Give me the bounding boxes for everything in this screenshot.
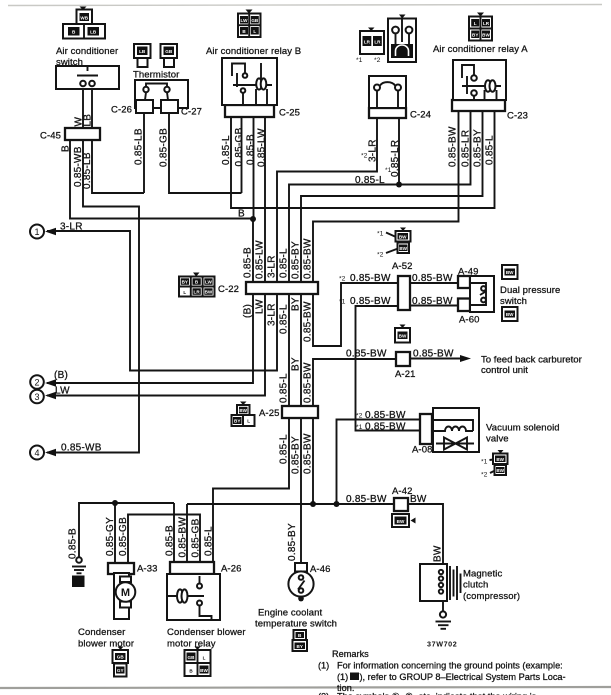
svg-text:L: L [474,21,477,26]
svg-text:C-45: C-45 [40,131,61,142]
svg-text:LW: LW [55,386,70,397]
svg-text:0.85-LW: 0.85-LW [257,128,268,167]
junction node B [250,216,256,222]
svg-text:LB: LB [83,114,94,127]
svg-text:LR: LR [374,40,381,45]
svg-text:0.85-L: 0.85-L [279,373,290,403]
svg-text:0.85-LR: 0.85-LR [461,130,472,167]
wire: 0.85-GB bus A-33 to A-26 [128,515,200,564]
connector A-08 [420,414,432,444]
arrow circle 2 [30,375,56,389]
icon: A-42 connector pin view with arrow [392,514,416,527]
svg-text:A-49: A-49 [458,267,478,278]
ground at condenser blower motor [72,557,86,587]
junction dot 0.85-GY at ground bus [112,500,118,506]
engine coolant temperature switch A-46 [288,563,313,601]
svg-text:BY: BY [234,419,240,424]
wire: 0.85-L from A-25 down to condenser relay A-26 [213,418,289,562]
svg-text:0.85-BW: 0.85-BW [413,349,454,360]
arrow circle 4 [30,446,56,460]
svg-text:0.85-BW: 0.85-BW [350,296,391,307]
svg-text:BW: BW [399,334,407,339]
svg-text:BW: BW [496,468,504,473]
svg-text:A-08: A-08 [412,445,432,456]
svg-text:0.85-BW: 0.85-BW [412,273,453,284]
remarks block [318,649,566,695]
svg-text:0.85-BW: 0.85-BW [346,494,387,505]
thermistor TH [135,80,188,113]
connector A-26 bar [170,562,214,574]
svg-text:0.85-GY: 0.85-GY [105,517,116,556]
wire: 0.85-BW A-60 back to A-52 [410,305,459,307]
arrow to feed back carburetor control unit [460,355,471,362]
svg-text:C-27: C-27 [181,107,202,118]
icon: A-21 connector pin view [395,325,410,343]
svg-text:Thermistor: Thermistor [133,70,179,81]
wire: A/C switch right terminal to C-45 [91,89,93,128]
wire: 0.85-B relay B pin down to node B [253,117,255,219]
svg-text:0.85-L: 0.85-L [485,135,496,165]
svg-text:0.85-BW: 0.85-BW [178,517,189,558]
wire: B net from node B through C-22 left to arrow 2 [47,219,253,383]
svg-text:Condenser blower: Condenser blower [167,627,246,638]
svg-text:3-LR: 3-LR [267,303,278,326]
svg-text:A-33: A-33 [137,564,157,575]
svg-text:C-25: C-25 [279,108,300,119]
svg-text:1: 1 [34,227,39,237]
junction dot A-08 riser at A-42 bus [334,501,340,507]
icon: A/C switch connector pin view [63,7,105,39]
svg-text:(1): (1) [337,672,348,682]
svg-text:A-21: A-21 [395,369,415,380]
icon: A-33 connector pin view [113,647,129,677]
svg-text:Air conditioner: Air conditioner [56,46,118,57]
icon: dual pressure switch BW upper [502,265,518,279]
svg-text:B: B [238,209,245,220]
connector C-24 bar [369,108,406,118]
air conditioner switch SW [56,66,119,89]
svg-text:*2: *2 [339,276,346,283]
wire: 0.85-B to condenser relay A-26 [173,503,175,562]
svg-text:Air conditioner relay B: Air conditioner relay B [206,46,301,57]
wire: 0.85-GB relay B pin down to GB bus [241,117,243,193]
wire color labels [54,114,496,562]
svg-text:GY: GY [117,668,124,673]
icon: C-24 harness connector LR LR [356,28,384,65]
icon: relay A connector pin view [469,13,492,41]
arrow circle 1 [30,225,56,239]
svg-text:A-46: A-46 [310,564,330,575]
svg-text:LW: LW [255,299,266,314]
svg-text:WB: WB [80,16,88,21]
wire: 0.85-B from C-45 down and right to node B [70,140,252,219]
inline connector A-21 [396,352,410,366]
svg-text:*2: *2 [356,413,363,420]
junction dot on 0.85-L bus at C-24 pin 1 [396,182,402,188]
svg-text:A-26: A-26 [221,564,241,575]
svg-text:GB: GB [117,655,125,660]
svg-text:Dual pressure: Dual pressure [500,285,560,296]
svg-text:*2: *2 [481,472,488,479]
icon: thermistor connector LB [134,44,151,67]
svg-text:0.85-GB: 0.85-GB [159,128,170,167]
wire: 0.85-BW A-52 row 2 down through A-21 tee to A-08 row 2 [356,306,422,431]
svg-text:0.85-LB: 0.85-LB [82,152,93,189]
wire: 0.85-L net relay B pin to relay A via y=208 bus [231,111,495,208]
page artifact: gray separator line above bottom [0,687,611,688]
svg-text:0.85-GB: 0.85-GB [118,517,129,556]
svg-text:*1: *1 [356,57,363,64]
svg-text:BW: BW [482,33,490,38]
svg-text:BW: BW [506,270,514,275]
svg-text:0.85-L: 0.85-L [279,248,290,278]
svg-text:BW: BW [410,494,427,505]
component name labels [40,44,583,650]
svg-text:0.85-BW: 0.85-BW [350,273,391,284]
svg-text:0.85-L: 0.85-L [279,304,290,334]
svg-text:For information concerning the: For information concerning the ground po… [337,661,563,671]
svg-text:C-26: C-26 [111,105,132,116]
svg-text:0.85-L: 0.85-L [221,135,232,165]
wire: 0.85-BW A-21 to feedback arrow [410,358,466,360]
svg-text:0.85-B: 0.85-B [165,525,176,556]
inline connector A-42 [394,498,408,511]
svg-text:0.85-WB: 0.85-WB [61,443,102,454]
svg-text:*2: *2 [377,252,384,259]
svg-text:2: 2 [34,378,39,388]
wire: 0.85-BW A-42 bus from A-26 BW to magnetic clutch [187,504,443,564]
wire: 0.85-LR C-24 pin 1 down to L bus dot [398,118,400,185]
junction dot A-25 BW at A-42 bus [310,501,316,507]
svg-text:BW: BW [433,545,444,562]
wire: magnetic clutch ground stem [442,601,444,612]
svg-text:LR: LR [194,290,201,295]
svg-text:BY: BY [291,357,302,371]
dual pressure switch [470,276,494,312]
icon: A-46 connector pin view [293,630,308,651]
svg-text:4: 4 [34,448,39,458]
svg-text:blower motor: blower motor [78,639,134,650]
icon: C-22 connector pin view [179,273,215,297]
svg-text:L: L [247,419,250,424]
icon: dual pressure switch BW lower [502,307,518,321]
page artifact: faint top edge line [8,5,602,6]
wire: 0.85-GB from thermistor C-27 right to relay B GB [169,113,242,193]
svg-text:GB: GB [188,655,196,660]
svg-text:*1: *1 [339,299,346,306]
svg-text:LW: LW [241,18,249,23]
vacuum solenoid valve [432,408,479,452]
icon: A-25 connector pin view [232,402,255,427]
svg-text:L: L [183,290,186,295]
svg-text:switch: switch [500,296,527,307]
svg-text:0.85-GB: 0.85-GB [234,127,245,166]
svg-text:valve: valve [486,434,509,445]
svg-text:1: 1 [76,580,80,587]
svg-text:To feed back carburetor: To feed back carburetor [481,355,583,366]
wire: A/C switch left terminal to C-45 [82,89,84,128]
svg-text:0.85-L: 0.85-L [355,175,385,186]
svg-text:0.85-B: 0.85-B [68,528,79,559]
svg-text:motor relay: motor relay [167,639,216,650]
svg-text:A-52: A-52 [392,261,412,272]
svg-text:Magnetic: Magnetic [463,569,502,580]
svg-text:BW: BW [205,290,213,295]
svg-text:Air conditioner relay A: Air conditioner relay A [433,44,528,55]
svg-text:L: L [253,29,256,34]
svg-text:BY: BY [472,33,478,38]
inline connector A-52 [398,276,410,310]
wire: 0.85-LW relay B through C-22 left to arrow 3 [47,117,265,396]
icon: relay B connector pin view [238,10,261,38]
svg-text:0.85-BW: 0.85-BW [303,301,314,342]
wire: 0.85-BW A-25 pin down to A-42 bus dot [312,418,314,504]
connector C-22 [246,282,318,294]
svg-text:0.85-L: 0.85-L [279,434,290,464]
svg-text:0.85-GB: 0.85-GB [191,518,202,557]
svg-text:BW: BW [239,408,247,413]
connector A-33 bar [108,563,134,574]
ground below magnetic clutch [436,611,452,628]
svg-text:3: 3 [34,392,39,402]
icon: A-26 connector pin view [185,647,211,677]
svg-text:BW: BW [399,246,407,251]
svg-text:0.85-BY: 0.85-BY [291,241,302,279]
svg-text:A-60: A-60 [459,315,479,326]
svg-text:37W702: 37W702 [427,640,457,649]
svg-text:clutch: clutch [463,580,488,591]
svg-text:BY: BY [297,644,303,649]
svg-text:*1: *1 [377,231,384,238]
svg-text:0.85-BW: 0.85-BW [412,296,453,307]
wire: 0.85-L net A-25 up through C-22 to L bus and relay A LR [289,111,471,406]
svg-text:switch: switch [56,57,83,68]
wire: 0.85-GY to condenser blower motor A-33 [114,503,116,563]
svg-text:0.85-BW: 0.85-BW [365,410,406,421]
wire: 0.85-BW A-52 to A-49 [410,282,459,284]
air conditioner relay B [222,58,277,105]
icon: thermistor connector GB [161,44,178,67]
connector C-23 [452,100,505,111]
svg-text:Vacuum solenoid: Vacuum solenoid [486,423,560,434]
svg-text:0.85-BW: 0.85-BW [346,349,387,360]
condenser blower motor A-33 motor M [114,573,135,619]
wire: 0.85-BW down to condenser relay A-26 [186,504,188,562]
wire: 0.85-LB from C-45 to LB bus [92,140,144,193]
magnetic clutch (compressor) [420,564,461,601]
svg-text:0.85-BW: 0.85-BW [303,362,314,403]
svg-text:0.85-LB: 0.85-LB [134,128,145,165]
svg-text:3-LR: 3-LR [368,139,379,162]
wire: 3-LR net arrow 1 to C-22 and up to C-24 [47,118,377,371]
svg-text:*1: *1 [481,459,488,466]
svg-text:*2: *2 [374,57,381,64]
icon: A-52 connector pin view with markers [377,228,411,259]
svg-text:(B): (B) [54,370,68,381]
resistor block C-24 [369,76,406,108]
svg-text:0.85-BW: 0.85-BW [448,126,459,167]
svg-text:0.85-BW: 0.85-BW [303,433,314,474]
svg-text:(compressor): (compressor) [463,591,520,602]
svg-text:BW: BW [506,312,514,317]
svg-text:GB: GB [165,49,173,54]
svg-text:(1): (1) [318,661,329,671]
svg-text:BW: BW [397,519,405,524]
svg-text:0.85-BW: 0.85-BW [303,238,314,279]
connector A-49 [458,276,470,288]
svg-text:), refer to GROUP 8–Electrical: ), refer to GROUP 8–Electrical System Pa… [360,672,566,682]
svg-text:LR: LR [483,21,490,26]
svg-text:0.85-BY: 0.85-BY [291,436,302,474]
icon: A-08 connector pin view with markers [481,450,508,479]
svg-text:*1: *1 [356,424,363,431]
svg-text:GB: GB [251,18,259,23]
svg-text:0.85-BY: 0.85-BY [473,129,484,167]
air conditioner relay A [453,60,506,100]
svg-text:LB: LB [90,30,97,35]
svg-text:temperature switch: temperature switch [255,619,337,630]
svg-text:0.85-L: 0.85-L [204,526,215,556]
wire: 0.85-BY net A-46 up through A-25 and C-22 to relay A BY [301,111,483,563]
svg-text:Condenser: Condenser [78,627,125,638]
svg-text:A-25: A-25 [259,408,279,419]
svg-text:LB: LB [139,49,146,54]
svg-text:C-22: C-22 [218,284,239,295]
condenser blower motor relay A-26 box [167,574,220,620]
svg-text:(B): (B) [243,304,254,318]
svg-text:0.85-BY: 0.85-BY [287,523,298,561]
svg-text:BW: BW [200,668,208,673]
connector A-60 [458,299,470,312]
svg-text:Engine coolant: Engine coolant [258,608,323,619]
wire: 0.85-WB from C-45 down, right, down to arrow 4 [47,140,139,453]
svg-text:0.85-BW: 0.85-BW [365,422,406,433]
svg-text:LR: LR [364,40,371,45]
wire: 0.85-BW net relay A down, bus to C-22, jog to A-52 row 1 [313,111,459,346]
wire: ground bus at A-33 / A-26 [79,503,174,557]
svg-text:LW: LW [205,280,213,285]
svg-text:BY: BY [182,280,188,285]
svg-text:0.85-LW: 0.85-LW [255,240,266,279]
svg-text:C-24: C-24 [410,110,431,121]
connector C-45 [65,128,100,140]
svg-text:3-LR: 3-LR [267,255,278,278]
connector C-25 [225,105,274,117]
wire: 0.85-BW A-25 pin up to A-21 branch [313,359,395,406]
svg-text:3-LR: 3-LR [60,222,83,233]
wire: 0.85-LB from thermistor C-26 [143,113,145,193]
svg-text:0.85-B: 0.85-B [246,134,257,165]
svg-text:L: L [203,656,206,661]
icon: C-24 component connector view [388,15,416,63]
svg-text:Remarks: Remarks [332,649,369,659]
wire: 0.85-BW A-08 row 1 left and down to A-42 bus [337,420,422,505]
svg-text:The symbols ①, ②, etc. indicat: The symbols ①, ②, etc. indicate that the… [337,692,537,695]
svg-text:(2): (2) [318,692,329,695]
svg-text:BY: BY [291,297,302,311]
connector A-25 [282,406,318,418]
svg-text:0.85-B: 0.85-B [243,247,254,278]
svg-text:C-23: C-23 [507,111,528,122]
svg-text:BW: BW [496,457,504,462]
svg-text:0.85-LR: 0.85-LR [390,140,401,177]
svg-text:M: M [121,587,130,599]
svg-text:B: B [61,145,72,152]
svg-text:BW: BW [399,234,407,239]
svg-text:control unit: control unit [481,365,528,376]
arrow circle 3 [30,390,56,404]
